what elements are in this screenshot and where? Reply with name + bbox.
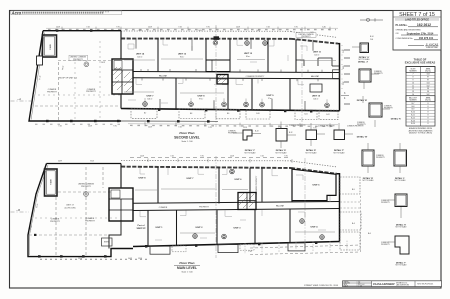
svg-text:7.32: 7.32	[260, 156, 263, 158]
svg-text:Scale 1 : 100: Scale 1 : 100	[181, 141, 192, 143]
svg-text:PROPERTY: PROPERTY	[86, 91, 97, 93]
svg-text:B-12: B-12	[411, 117, 415, 119]
svg-text:7.32: 7.32	[343, 50, 345, 53]
svg-text:B-11: B-11	[411, 115, 415, 117]
svg-text:UNIT 8: UNIT 8	[139, 178, 147, 180]
svg-text:8: 8	[428, 123, 429, 125]
svg-text:7.32: 7.32	[58, 126, 61, 128]
svg-text:PROPERTY: PROPERTY	[376, 157, 386, 159]
svg-text:COMMON PROPERTY: COMMON PROPERTY	[246, 76, 266, 78]
svg-text:UNIT 6: UNIT 6	[235, 179, 243, 181]
svg-text:HALLWAY: HALLWAY	[276, 205, 285, 208]
svg-text:12.19: 12.19	[243, 127, 247, 129]
svg-text:MAIN LEVEL: MAIN LEVEL	[177, 266, 197, 270]
svg-text:12.19: 12.19	[56, 27, 60, 29]
svg-text:PLAN No.: PLAN No.	[396, 23, 408, 27]
svg-text:7.32: 7.32	[266, 27, 269, 29]
svg-text:7.32: 7.32	[343, 82, 345, 85]
svg-text:(1st FLOOR): (1st FLOOR)	[65, 206, 76, 209]
svg-text:12.19: 12.19	[78, 258, 82, 260]
svg-text:UNIT 8: UNIT 8	[198, 96, 206, 98]
svg-text:UNIT 7: UNIT 7	[187, 178, 195, 180]
svg-text:PROPERTY: PROPERTY	[85, 221, 96, 223]
svg-text:8: 8	[428, 103, 429, 105]
svg-text:3.05: 3.05	[198, 30, 201, 32]
svg-text:8: 8	[428, 115, 429, 117]
svg-text:102 m²: 102 m²	[314, 53, 320, 56]
svg-text:8: 8	[428, 106, 429, 108]
svg-text:3: 3	[344, 92, 346, 95]
svg-text:104: 104	[427, 82, 430, 84]
svg-text:Floor Plan: Floor Plan	[179, 261, 194, 265]
svg-text:DETAIL 'K': DETAIL 'K'	[391, 118, 402, 121]
svg-text:UNIT 9: UNIT 9	[267, 95, 275, 97]
svg-text:DETAIL 'T': DETAIL 'T'	[396, 262, 407, 265]
svg-text:PROPERTY: PROPERTY	[301, 36, 311, 38]
svg-text:21.34: 21.34	[36, 204, 39, 209]
svg-text:B-14: B-14	[370, 36, 373, 38]
svg-text:9.75: 9.75	[313, 127, 316, 129]
svg-text:8: 8	[428, 112, 429, 114]
svg-text:HALLWAY: HALLWAY	[311, 75, 320, 78]
svg-text:7.32: 7.32	[178, 127, 181, 129]
svg-text:(SQ.M.): (SQ.M.)	[425, 70, 431, 72]
svg-text:UNIT 14: UNIT 14	[136, 53, 145, 56]
svg-text:104: 104	[427, 74, 430, 76]
svg-text:B-6: B-6	[368, 233, 371, 235]
svg-text:12.19: 12.19	[88, 126, 92, 128]
svg-text:DETAIL 'N': DETAIL 'N'	[363, 177, 374, 180]
svg-text:4: 4	[344, 97, 346, 100]
svg-text:PROPERTY: PROPERTY	[47, 92, 58, 94]
svg-text:104 m²: 104 m²	[313, 97, 319, 100]
svg-text:A REGISTRAR: A REGISTRAR	[426, 46, 438, 49]
svg-text:UNIT 17: UNIT 17	[137, 228, 146, 230]
svg-text:7: 7	[413, 74, 414, 76]
svg-text:UNIT 17: UNIT 17	[66, 205, 74, 207]
svg-text:97: 97	[427, 77, 429, 79]
svg-text:3.05: 3.05	[138, 30, 141, 32]
svg-text:B-13: B-13	[255, 131, 258, 133]
svg-text:B-8: B-8	[412, 106, 415, 108]
svg-text:—B: —B	[16, 209, 20, 212]
svg-text:PROPERTY: PROPERTY	[81, 186, 92, 188]
svg-text:COMMON: COMMON	[228, 131, 236, 133]
svg-text:PROPERTY: PROPERTY	[381, 244, 391, 246]
svg-text:B-14: B-14	[411, 123, 415, 125]
svg-text:8.53: 8.53	[90, 161, 93, 163]
svg-text:27.43: 27.43	[39, 76, 42, 81]
svg-text:OPENED AND REGISTERED: OPENED AND REGISTERED	[396, 29, 422, 32]
svg-text:9.75: 9.75	[116, 27, 119, 29]
svg-text:HALLWAY: HALLWAY	[159, 74, 168, 77]
svg-text:7.32: 7.32	[248, 251, 251, 253]
svg-text:12.19: 12.19	[140, 156, 144, 158]
svg-text:96: 96	[427, 88, 429, 90]
svg-text:9.75: 9.75	[208, 127, 211, 129]
svg-text:3.05: 3.05	[256, 30, 259, 32]
svg-text:12.19: 12.19	[230, 156, 234, 158]
svg-text:7.32: 7.32	[170, 156, 173, 158]
svg-text:12.19: 12.19	[236, 27, 240, 29]
svg-text:10.97: 10.97	[128, 258, 132, 260]
svg-text:(SUBJECT TO FIELD CHECK): (SUBJECT TO FIELD CHECK)	[409, 133, 433, 135]
svg-text:COMMON: COMMON	[381, 242, 389, 244]
svg-text:B-7: B-7	[412, 103, 415, 105]
svg-text:UNIT 10: UNIT 10	[312, 96, 321, 98]
svg-text:PROPERTY: PROPERTY	[374, 73, 384, 75]
svg-text:UNIT 7: UNIT 7	[147, 96, 155, 98]
svg-text:UNIT 1: UNIT 1	[156, 227, 164, 229]
svg-text:8: 8	[428, 109, 429, 111]
svg-text:COMMON PROPERTY: COMMON PROPERTY	[318, 126, 336, 128]
svg-text:B-7: B-7	[144, 113, 147, 115]
svg-text:9.75: 9.75	[206, 27, 209, 29]
svg-text:Part of: Part of	[138, 224, 145, 227]
svg-text:STAIR: STAIR	[49, 44, 52, 50]
svg-text:3.05: 3.05	[343, 66, 345, 69]
svg-text:1 : 100: 1 : 100	[358, 285, 362, 287]
svg-text:7.32: 7.32	[178, 27, 181, 29]
svg-text:ENTRY: ENTRY	[104, 242, 110, 244]
svg-text:B-5: B-5	[352, 189, 355, 191]
svg-text:B-4: B-4	[352, 223, 355, 225]
svg-text:96 m²: 96 m²	[180, 55, 185, 58]
svg-text:9.75: 9.75	[200, 156, 203, 158]
svg-text:—A: —A	[17, 98, 21, 101]
svg-text:COMMON: COMMON	[384, 106, 392, 108]
svg-text:COMMON PROPERTY: COMMON PROPERTY	[256, 175, 258, 195]
svg-text:B-13: B-13	[411, 120, 415, 122]
svg-text:STREET VIEW CONDOS LTD. 2014: STREET VIEW CONDOS LTD. 2014	[304, 285, 339, 287]
svg-text:DETAIL 'F': DETAIL 'F'	[334, 149, 345, 152]
svg-text:COMMON: COMMON	[376, 155, 384, 157]
svg-text:Scale 1 : 100: Scale 1 : 100	[181, 271, 192, 273]
svg-text:96 m²: 96 m²	[246, 55, 251, 58]
svg-text:UNIT 3: UNIT 3	[234, 228, 242, 230]
svg-text:96: 96	[427, 91, 429, 93]
svg-text:9: 9	[413, 80, 414, 82]
svg-text:DETAIL 'C': DETAIL 'C'	[245, 149, 256, 152]
svg-text:PROPERTY: PROPERTY	[228, 133, 238, 135]
svg-text:8: 8	[428, 117, 429, 119]
svg-text:UNIT 11: UNIT 11	[313, 52, 322, 54]
svg-text:12.19: 12.19	[148, 27, 152, 29]
svg-text:B-9: B-9	[412, 109, 415, 111]
svg-text:8: 8	[413, 77, 414, 79]
svg-text:COMMON PROPERTY: COMMON PROPERTY	[289, 125, 307, 127]
svg-text:6.40: 6.40	[322, 27, 325, 29]
svg-text:B-8: B-8	[190, 113, 193, 115]
svg-text:UNIT 4: UNIT 4	[311, 226, 319, 229]
svg-text:B-12: B-12	[289, 132, 292, 134]
svg-text:UNIT 13: UNIT 13	[178, 54, 187, 56]
svg-text:PROPERTY: PROPERTY	[73, 59, 84, 61]
svg-text:COMMON: COMMON	[381, 200, 389, 202]
svg-text:COMMON: COMMON	[159, 207, 168, 209]
svg-text:TM 5 98CP12P2021: TM 5 98CP12P2021	[417, 284, 433, 286]
svg-text:7.32: 7.32	[86, 27, 89, 29]
svg-text:8: 8	[428, 120, 429, 122]
svg-text:12: 12	[412, 88, 414, 90]
svg-text:B-10: B-10	[256, 113, 259, 115]
svg-text:10.97: 10.97	[58, 161, 62, 163]
svg-text:97: 97	[427, 80, 429, 82]
svg-text:10: 10	[412, 82, 414, 84]
svg-text:COMMON: COMMON	[374, 71, 382, 73]
svg-text:B-12: B-12	[326, 114, 329, 116]
svg-text:39.62: 39.62	[62, 66, 65, 71]
svg-text:102: 102	[427, 85, 430, 87]
svg-text:10.97: 10.97	[101, 62, 105, 64]
svg-text:DETAIL 'M': DETAIL 'M'	[357, 136, 368, 139]
svg-text:LAND TITLES OFFICE: LAND TITLES OFFICE	[405, 18, 429, 21]
svg-text:97 m²: 97 m²	[199, 97, 204, 100]
svg-text:9.75: 9.75	[284, 156, 287, 158]
svg-text:9.75: 9.75	[294, 27, 297, 29]
svg-text:PROPERTY: PROPERTY	[199, 206, 210, 208]
svg-text:NUMBER: NUMBER	[409, 100, 417, 102]
svg-text:Floor Plan: Floor Plan	[179, 131, 194, 135]
svg-text:(SQ.M.): (SQ.M.)	[425, 100, 431, 102]
svg-text:DETAIL 'L': DETAIL 'L'	[395, 177, 406, 180]
svg-text:COMMON: COMMON	[357, 122, 365, 124]
svg-text:DETAIL 'S': DETAIL 'S'	[396, 224, 407, 227]
svg-text:14.63: 14.63	[30, 226, 33, 231]
svg-text:11: 11	[412, 85, 414, 87]
svg-text:UNIT 5: UNIT 5	[313, 185, 321, 187]
svg-text:EXCLUSIVE USE AREAS: EXCLUSIVE USE AREAS	[405, 61, 436, 65]
svg-text:ROOF OF UNIT 1-6: ROOF OF UNIT 1-6	[59, 78, 78, 80]
svg-text:102 m²: 102 m²	[137, 55, 143, 58]
svg-text:DETAIL 'E': DETAIL 'E'	[306, 149, 317, 152]
svg-text:PROPERTY: PROPERTY	[381, 202, 391, 204]
svg-text:DETAIL 'D': DETAIL 'D'	[276, 149, 287, 152]
svg-text:13: 13	[412, 91, 414, 93]
svg-text:UNIT 2: UNIT 2	[196, 227, 204, 229]
svg-text:DETAIL 'G': DETAIL 'G'	[359, 56, 370, 59]
svg-text:104 m²: 104 m²	[147, 97, 153, 100]
svg-text:CHALLENGER: CHALLENGER	[373, 282, 395, 286]
svg-text:NUMBER: NUMBER	[409, 70, 417, 72]
svg-text:STAIR: STAIR	[50, 179, 53, 185]
svg-text:DETAIL 'B': DETAIL 'B'	[357, 99, 368, 102]
svg-text:PROPERTY: PROPERTY	[384, 108, 394, 110]
svg-text:12.19: 12.19	[148, 126, 152, 128]
svg-text:B-9: B-9	[227, 113, 230, 115]
svg-text:B-11: B-11	[304, 114, 307, 116]
svg-text:2.44: 2.44	[370, 39, 373, 41]
svg-text:PROPERTY: PROPERTY	[357, 124, 367, 126]
svg-text:UNIT 12: UNIT 12	[244, 53, 253, 55]
svg-text:PROPERTY: PROPERTY	[50, 221, 61, 223]
svg-text:B-10: B-10	[411, 112, 415, 114]
svg-text:SECOND LEVEL: SECOND LEVEL	[174, 136, 200, 140]
svg-text:CONDOMINIUM No.: CONDOMINIUM No.	[396, 38, 414, 40]
svg-text:9.75: 9.75	[113, 126, 116, 128]
svg-text:12.19: 12.19	[138, 258, 142, 260]
